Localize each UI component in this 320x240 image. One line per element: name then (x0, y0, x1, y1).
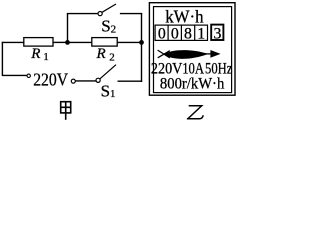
wire: bottom right horizontal to S1 (118, 80, 143, 82)
register digits frame (155, 25, 207, 40)
label 乙 (figure B) drawn glyph (187, 106, 203, 119)
wire: top-left horizontal into R1 (2, 41, 25, 43)
svg-text:R: R (30, 46, 40, 62)
node B junction dot (139, 40, 144, 45)
wire: S2 to right rail (120, 13, 142, 15)
svg-text:0: 0 (171, 26, 179, 43)
svg-text:800r/kW·h: 800r/kW·h (160, 75, 225, 92)
wire: top rail to S2 (67, 13, 98, 15)
svg-text:kW·h: kW·h (165, 7, 203, 27)
wire: node A up to top rail (67, 14, 69, 43)
decimal digit box (211, 25, 223, 40)
label 甲 (figure A) drawn glyph (61, 102, 71, 120)
meter inner box (154, 7, 232, 93)
wire: bottom left horizontal (2, 74, 27, 76)
switch S1 pivot (96, 78, 100, 82)
svg-text:3: 3 (213, 26, 221, 43)
svg-text:0: 0 (158, 26, 166, 43)
resistor R1 (24, 38, 53, 47)
svg-text:220V: 220V (33, 69, 68, 89)
register cell separator 3 (194, 25, 196, 40)
wire: node A to R2 (68, 41, 93, 43)
svg-text:S: S (101, 81, 110, 100)
svg-text:S: S (101, 16, 110, 35)
svg-text:8: 8 (184, 26, 192, 43)
svg-text:1: 1 (197, 26, 205, 43)
svg-text:2: 2 (109, 51, 115, 63)
wire: S1 pivot to right battery terminal (76, 80, 97, 82)
svg-text:1: 1 (43, 51, 49, 63)
wire: right vertical rail (141, 13, 143, 82)
disc rotation arrow (204, 50, 221, 58)
terminal circle right of 220V (71, 79, 75, 83)
register cell separator 1 (167, 25, 169, 40)
svg-text:R: R (96, 46, 106, 62)
switch S2 blade (102, 4, 116, 12)
register cell separator 2 (180, 25, 182, 40)
svg-text:1: 1 (110, 88, 116, 100)
wire: R1 to node A (53, 41, 68, 43)
terminal circle left of 220V (27, 74, 30, 77)
resistor R2 (92, 38, 117, 47)
switch S2 pivot (98, 12, 102, 16)
node A junction dot (65, 40, 70, 45)
rotating disc (edge view) (158, 50, 209, 59)
switch S1 blade (100, 65, 117, 80)
wire: R2 to node B (117, 41, 141, 43)
wire: left vertical from top-left corner down to 220V terminal row (1, 42, 3, 76)
svg-text:2: 2 (111, 24, 117, 36)
meter outer box (149, 3, 235, 96)
